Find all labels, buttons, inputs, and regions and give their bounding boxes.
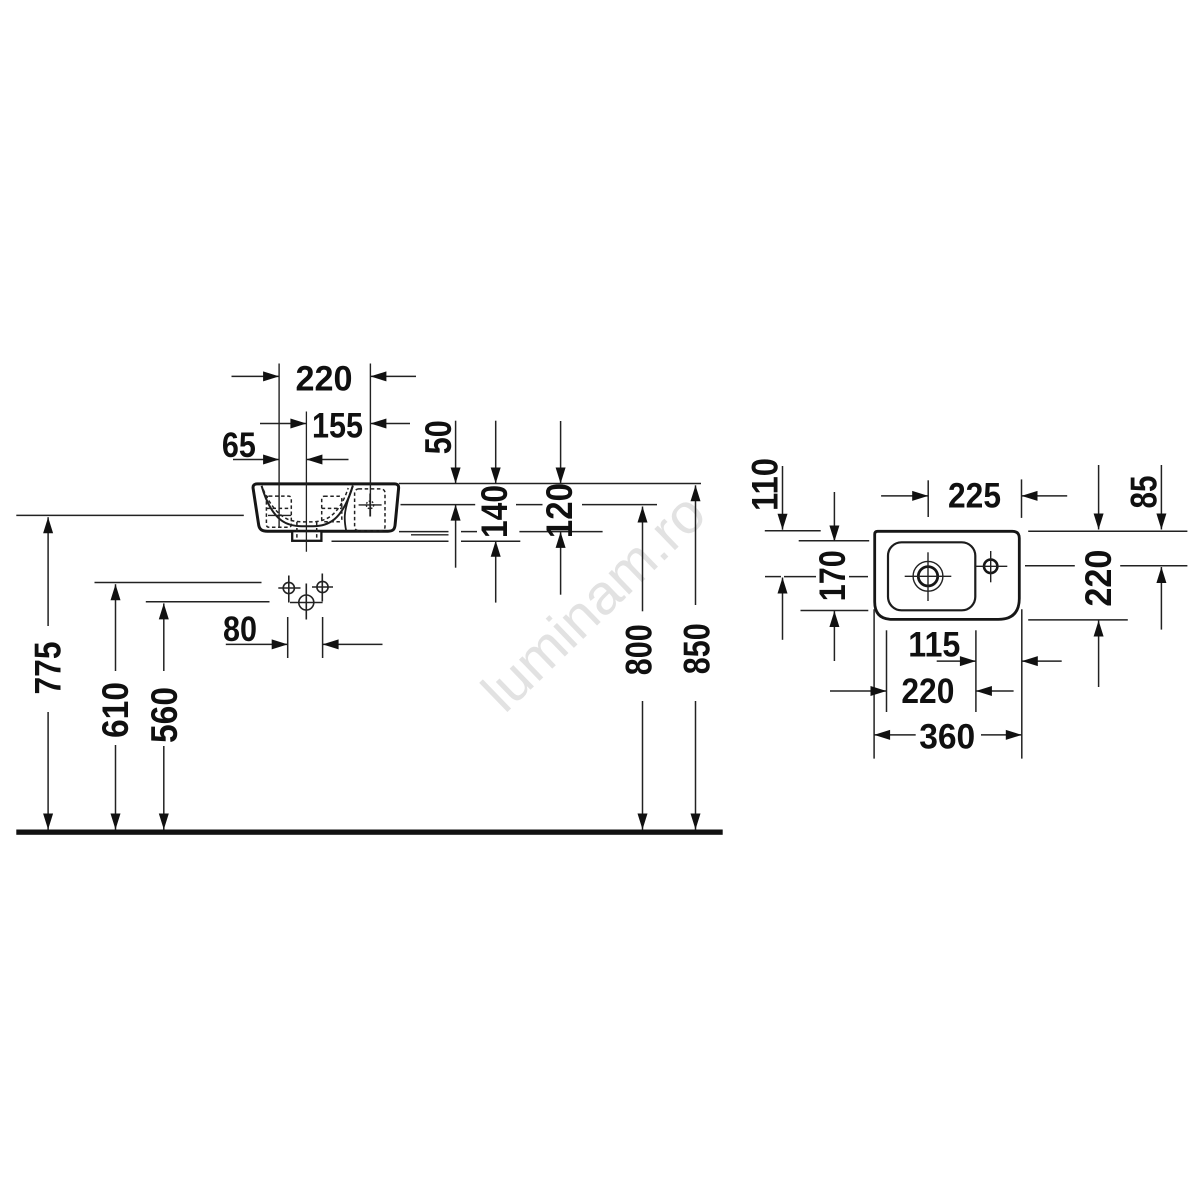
front view: center hidden box dashed xyxy=(322,496,342,522)
front view: hidden bowl dashed arc xyxy=(263,488,348,522)
dimension 560 xyxy=(163,603,165,829)
dimension 220 top xyxy=(232,375,417,377)
level line tap y=504.6 xyxy=(401,504,658,506)
dimension 140 xyxy=(495,421,497,603)
top view: outer outline xyxy=(875,531,1020,619)
front view: basin outer outline xyxy=(253,484,399,531)
dimension 800 xyxy=(642,507,644,830)
svg-text:560: 560 xyxy=(144,687,185,743)
front view: bowl rim solid curve xyxy=(262,486,353,527)
level line basin bottom y=531.9 xyxy=(399,531,603,533)
dimension 220 bottom xyxy=(830,690,1014,692)
dimension 115 xyxy=(937,660,1062,662)
drain outlet circle xyxy=(290,584,323,620)
dimension 170 xyxy=(799,492,870,661)
mounting holes detail: left hole xyxy=(278,576,300,603)
extension line right tap xyxy=(369,364,371,517)
dimension 85 xyxy=(1025,465,1187,630)
svg-text:800: 800 xyxy=(619,624,660,675)
svg-text:85: 85 xyxy=(1124,476,1165,509)
top view: drain circles xyxy=(905,552,952,601)
dimension 220 right xyxy=(1028,465,1128,687)
svg-text:225: 225 xyxy=(948,477,1001,516)
front view: drain tailpiece xyxy=(292,522,321,541)
dimension 610 xyxy=(115,584,117,829)
dimension 120 xyxy=(560,421,562,595)
bottom extension lines top view xyxy=(874,609,1022,758)
svg-text:155: 155 xyxy=(312,406,363,445)
mounting holes detail: right hole xyxy=(312,574,333,602)
front view: deck left edge xyxy=(345,486,353,531)
svg-text:610: 610 xyxy=(95,682,136,738)
svg-text:120: 120 xyxy=(539,483,580,538)
dimension 155 xyxy=(260,423,410,425)
dimension 775 xyxy=(47,517,49,829)
level line secondary y=533.9 xyxy=(411,534,449,536)
svg-text:65: 65 xyxy=(222,426,256,465)
svg-text:110: 110 xyxy=(745,458,786,511)
level line fixing holes y=515.4 xyxy=(16,514,244,516)
svg-text:220: 220 xyxy=(296,360,353,399)
svg-text:50: 50 xyxy=(418,420,459,454)
svg-text:220: 220 xyxy=(901,672,954,711)
extension line left hole xyxy=(278,364,280,527)
svg-text:140: 140 xyxy=(474,485,515,538)
dimension 110 xyxy=(765,466,868,640)
svg-text:80: 80 xyxy=(223,610,257,649)
svg-text:360: 360 xyxy=(919,718,975,757)
level line tailpiece bottom y=541.2 xyxy=(332,540,521,542)
top view: inner bowl xyxy=(888,542,975,610)
svg-text:170: 170 xyxy=(812,550,853,601)
svg-text:850: 850 xyxy=(677,623,718,674)
svg-text:775: 775 xyxy=(27,642,68,695)
watermark luminam.ro xyxy=(469,481,717,724)
dimension 65 xyxy=(233,459,349,461)
level line 560 y=601.7 xyxy=(146,601,270,603)
top view: tap hole xyxy=(975,551,1007,582)
svg-text:115: 115 xyxy=(908,626,960,665)
dimension 360 xyxy=(874,734,1022,736)
front view: right hidden box dashed xyxy=(355,489,385,531)
front view: tap hole dashed circle with cross xyxy=(359,494,382,517)
level line rim y=483.5 xyxy=(399,483,701,485)
svg-text:220: 220 xyxy=(1078,550,1119,607)
dimension 225 xyxy=(881,479,1067,518)
dimension 80 xyxy=(226,617,383,658)
level line 610 y=582.5 xyxy=(95,582,262,584)
front view: vertical center line xyxy=(305,412,307,552)
floor line xyxy=(16,830,722,835)
dimension 850 xyxy=(695,485,697,829)
dimension 50 xyxy=(455,421,457,568)
front view: left fixing hole cross xyxy=(268,514,291,516)
front view: left hidden box dashed xyxy=(266,496,291,527)
